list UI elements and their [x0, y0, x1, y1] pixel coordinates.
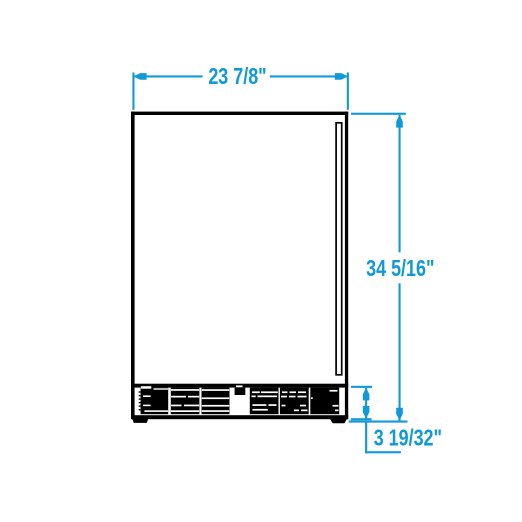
grille module 3: [202, 388, 230, 415]
base bottom bar: [131, 415, 348, 419]
svg-text:3 19/32": 3 19/32": [374, 426, 442, 452]
grille center tab: [235, 385, 246, 395]
dim height bottom extension line short: [351, 418, 372, 420]
dim height bottom extension line long: [349, 421, 408, 423]
dim base line: [365, 388, 367, 419]
dim width extension line left: [132, 73, 134, 110]
dim height arrow top: [396, 115, 403, 128]
grille module 5: [280, 388, 309, 415]
dim width arrow left: [134, 73, 147, 80]
dim base top extension line: [351, 386, 372, 388]
dim base arrow down: [363, 406, 370, 419]
dim height top extension line: [351, 113, 406, 115]
grille left white column ticks: [139, 391, 141, 410]
grille module 1: [141, 386, 169, 414]
cabinet outline top bar: [131, 112, 348, 115]
dim height line upper segment: [399, 115, 401, 253]
door handle: [336, 123, 342, 375]
door bottom bar: [131, 384, 348, 388]
dim width line right segment: [270, 75, 347, 77]
dim height line lower segment: [399, 283, 401, 420]
svg-text:23 7/8": 23 7/8": [208, 64, 266, 90]
dim base arrow up: [363, 388, 370, 401]
grille module 6: [310, 388, 339, 415]
dim width line left segment: [134, 75, 202, 77]
cabinet outline left edge: [131, 112, 135, 418]
dim height arrow bottom: [396, 408, 403, 421]
left foot: [132, 419, 148, 423]
dim base leader vertical: [365, 421, 367, 454]
svg-text:34 5/16": 34 5/16": [366, 256, 434, 282]
dim width extension line right: [347, 73, 349, 110]
cabinet outline right edge: [345, 112, 348, 420]
dim base leader underline: [365, 451, 401, 453]
grille module 4: [250, 388, 279, 415]
grille module 2: [171, 388, 200, 415]
right foot: [330, 419, 347, 423]
dim width arrow right: [335, 73, 348, 80]
